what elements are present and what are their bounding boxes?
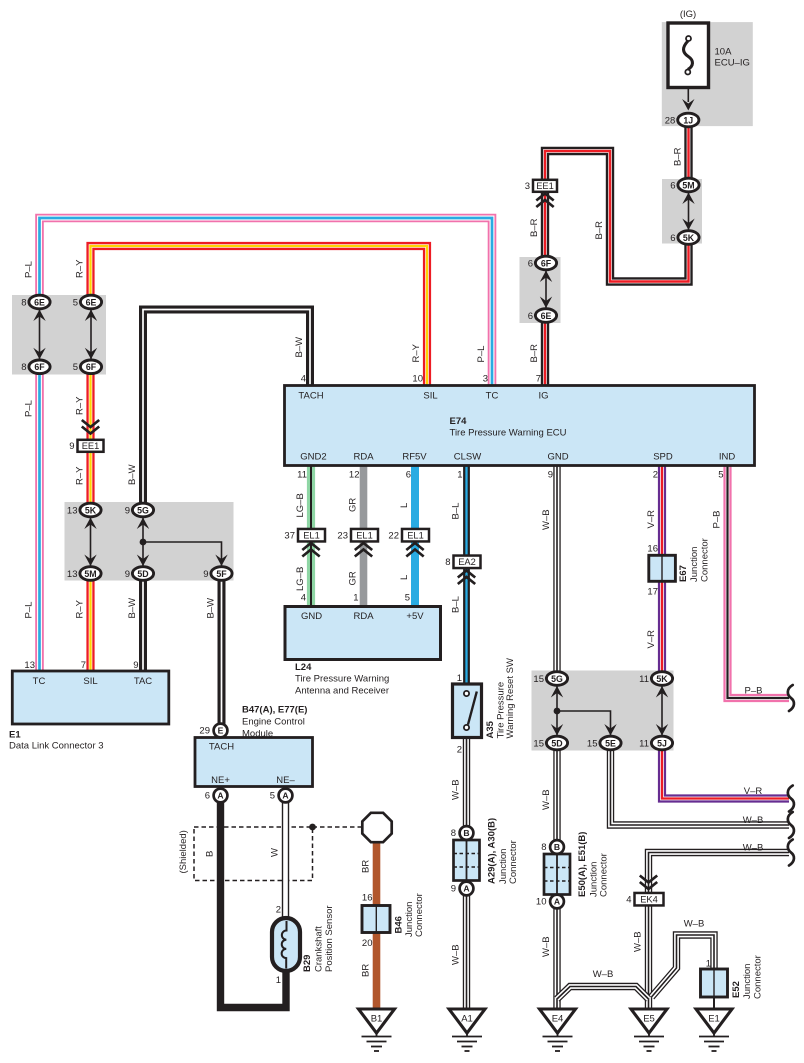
junction connector B46 [362, 906, 390, 933]
svg-text:5E: 5E [605, 738, 616, 748]
svg-text:1: 1 [457, 673, 462, 684]
junction EE1 pin 3 [525, 180, 557, 192]
svg-text:B–W: B–W [294, 337, 305, 358]
connector 5K pin 13 [67, 503, 101, 517]
svg-text:Connector: Connector [753, 955, 764, 999]
svg-text:Module: Module [242, 729, 273, 740]
svg-text:A: A [282, 791, 288, 801]
shield octagon [362, 813, 391, 842]
svg-text:1J: 1J [683, 115, 693, 125]
junction dot shield drain [309, 824, 316, 831]
shield dashed outline around B29 wires [194, 827, 313, 881]
wire LG-B E74 GND2 pin 11 to L24 GND [307, 386, 315, 607]
ECU E74 Tire Pressure Warning ECU [285, 386, 755, 466]
link 5G-5D left [137, 517, 149, 567]
link 6F-6E on B-R [540, 270, 552, 309]
svg-text:Connector: Connector [599, 853, 610, 897]
svg-text:6: 6 [406, 470, 411, 481]
connector 5F pin 9 [203, 567, 232, 581]
svg-text:5G: 5G [137, 505, 149, 515]
svg-text:SIL: SIL [83, 676, 97, 687]
svg-text:EE1: EE1 [82, 441, 100, 451]
svg-text:6: 6 [670, 233, 675, 244]
svg-text:Junction: Junction [689, 547, 700, 582]
svg-text:5F: 5F [216, 569, 227, 579]
wire B-W segment 5F to ECM pin 29 [218, 574, 226, 725]
gray panel connectors 5K-5M 5G-5D 5F left [65, 502, 234, 581]
svg-text:6: 6 [205, 791, 210, 802]
svg-text:9: 9 [125, 569, 130, 580]
connector 6E pin 5 [73, 295, 102, 309]
fuse 10A ECU-IG [668, 23, 709, 88]
svg-text:L24: L24 [295, 662, 312, 673]
chevron out of EA2 [458, 571, 475, 585]
svg-text:1: 1 [276, 975, 281, 986]
svg-text:12: 12 [349, 470, 360, 481]
svg-text:5D: 5D [551, 738, 562, 748]
ground B1 [359, 1009, 395, 1051]
svg-text:IG: IG [538, 391, 548, 402]
svg-text:9: 9 [125, 505, 130, 516]
page link P-B [788, 685, 794, 711]
wire P-L segment 6F to E1 pin 13 [35, 366, 44, 671]
junction connector A29(A) A30(B) [454, 840, 480, 881]
svg-text:A29(A), A30(B): A29(A), A30(B) [487, 818, 498, 884]
svg-text:B–L: B–L [451, 596, 462, 613]
wire W ECM NE- to B29 pin 2 [282, 802, 289, 918]
svg-text:E1: E1 [9, 730, 21, 741]
svg-text:1: 1 [353, 593, 358, 604]
connector 5J pin 11 [639, 736, 672, 750]
svg-text:8: 8 [451, 828, 456, 839]
svg-text:EK4: EK4 [640, 895, 658, 905]
svg-text:6E: 6E [86, 297, 97, 307]
svg-text:13: 13 [24, 660, 35, 671]
svg-text:1: 1 [457, 470, 462, 481]
svg-text:8: 8 [21, 297, 26, 308]
svg-text:W–B: W–B [633, 931, 644, 952]
pin A 5 ECM NE- [270, 789, 293, 803]
svg-text:P–L: P–L [24, 261, 35, 278]
svg-text:B–W: B–W [127, 464, 138, 485]
svg-text:13: 13 [67, 505, 78, 516]
wire W-B from page edge through EK4 to ground E5 [649, 853, 790, 1010]
dashed shield drain line to octagon [313, 826, 364, 828]
junction EE1 pin 9 [69, 440, 103, 452]
svg-text:R–Y: R–Y [75, 599, 86, 618]
svg-text:6F: 6F [34, 362, 45, 372]
svg-text:W–B: W–B [541, 509, 552, 530]
gray panel connectors 6E-6F left pair [12, 295, 106, 375]
svg-text:E74: E74 [450, 416, 468, 427]
page link V-R [788, 786, 794, 812]
svg-text:Engine Control: Engine Control [242, 717, 305, 728]
wire R-Y segment 6F through EE1 to 5K [86, 366, 94, 510]
chevron out of EE1 right [536, 194, 553, 208]
svg-text:2: 2 [276, 905, 281, 916]
svg-text:R–Y: R–Y [75, 259, 86, 278]
junction EL1 pin 37 [284, 529, 325, 542]
wire W-B 5D through E50 junction to ground E4 [553, 743, 560, 1009]
svg-text:RDA: RDA [353, 452, 374, 463]
pin B 8 A29 junction [451, 826, 474, 840]
svg-text:22: 22 [388, 531, 399, 542]
svg-text:GND: GND [547, 452, 568, 463]
connector 6F pin 8 [21, 360, 50, 374]
svg-text:B–R: B–R [529, 218, 540, 237]
pin A 10 E50 junction [536, 895, 564, 909]
svg-text:Connector: Connector [700, 538, 711, 582]
page link W-B lower [788, 840, 794, 866]
link 6E-6F left P-L [33, 309, 45, 360]
svg-text:W: W [270, 848, 281, 857]
svg-text:6: 6 [528, 311, 533, 322]
svg-text:LG–B: LG–B [295, 493, 306, 517]
svg-text:10A: 10A [715, 47, 733, 58]
svg-text:15: 15 [533, 674, 544, 685]
connector 5E pin 15 [587, 736, 621, 750]
wire P-B E74 IND pin 5 down and right to page edge [728, 386, 790, 698]
connector 5K pin 11 [639, 672, 672, 686]
svg-text:4: 4 [626, 895, 631, 906]
wire V-R 5J down and right to page edge [662, 743, 789, 799]
svg-text:E: E [218, 726, 224, 736]
chevron out of EL1 pin 37 [302, 543, 319, 557]
connector 6E pin 6 [528, 309, 557, 323]
wire R-Y segment 5M to E1 SIL pin 7 [86, 574, 94, 672]
svg-text:E1: E1 [708, 1014, 720, 1025]
svg-text:+5V: +5V [406, 611, 424, 622]
svg-text:R–Y: R–Y [75, 466, 86, 485]
svg-text:W–B: W–B [593, 969, 614, 980]
svg-text:7: 7 [536, 374, 541, 385]
svg-text:8: 8 [21, 362, 26, 373]
svg-text:NE+: NE+ [211, 775, 230, 786]
svg-text:6F: 6F [86, 362, 97, 372]
page link W-B upper [788, 812, 794, 838]
svg-text:P–L: P–L [24, 400, 35, 417]
ground E1 [696, 1009, 732, 1051]
svg-text:20: 20 [362, 938, 373, 949]
svg-text:EE1: EE1 [536, 181, 554, 191]
svg-text:Tire Pressure Warning: Tire Pressure Warning [295, 674, 389, 685]
svg-text:(IG): (IG) [680, 9, 696, 20]
switch A35 Tire Pressure Warning Reset SW [453, 684, 482, 738]
svg-text:5M: 5M [84, 569, 96, 579]
junction EA2 pin 8 [445, 556, 480, 569]
svg-text:13: 13 [67, 569, 78, 580]
svg-text:15: 15 [587, 738, 598, 749]
svg-text:EL1: EL1 [356, 531, 373, 541]
svg-text:R–Y: R–Y [75, 396, 86, 415]
svg-text:Junction: Junction [742, 964, 753, 999]
svg-text:28: 28 [665, 115, 676, 126]
wire stub E52 to ground E1 [713, 997, 715, 1010]
svg-text:GND: GND [301, 611, 322, 622]
svg-text:15: 15 [533, 738, 544, 749]
svg-text:BR: BR [361, 860, 372, 873]
junction connector E50(A) E51(B) [544, 854, 570, 895]
svg-text:10: 10 [536, 897, 547, 908]
connector 6F pin 5 [73, 360, 102, 374]
pin A 9 A29 junction [451, 882, 474, 896]
gray panel connectors 6F-6E on B-R [520, 257, 561, 323]
svg-text:5: 5 [718, 470, 723, 481]
connector 5D pin 9 [125, 567, 154, 581]
svg-text:8: 8 [445, 557, 450, 568]
link 5K-5M left [84, 517, 96, 567]
chevron out of EL1 pin 22 [406, 543, 423, 557]
svg-text:5J: 5J [657, 738, 667, 748]
svg-text:L: L [399, 503, 410, 508]
svg-text:37: 37 [284, 531, 295, 542]
svg-text:5D: 5D [137, 569, 148, 579]
svg-text:3: 3 [525, 181, 530, 192]
pin B 8 E50 junction [541, 840, 564, 854]
wire B-L E74 CLSW pin 1 through EA2 to A35 [463, 386, 470, 684]
svg-text:A35: A35 [485, 720, 496, 738]
svg-text:6F: 6F [541, 258, 552, 268]
svg-text:TAC: TAC [134, 676, 152, 687]
svg-text:P–L: P–L [24, 602, 35, 619]
svg-text:V–R: V–R [646, 630, 657, 649]
svg-text:11: 11 [639, 738, 649, 749]
ground A1 [449, 1009, 485, 1051]
svg-text:6: 6 [528, 258, 533, 269]
connector 6F pin 6 [528, 256, 557, 270]
chevron into EK4 [640, 876, 657, 890]
svg-text:CLSW: CLSW [454, 452, 481, 463]
svg-text:E52: E52 [731, 981, 742, 998]
svg-text:GND2: GND2 [300, 452, 326, 463]
connector 5M pin 13 [67, 567, 101, 581]
svg-text:B–W: B–W [206, 598, 217, 619]
svg-text:SIL: SIL [423, 391, 437, 402]
link 5M-5K right [682, 192, 694, 231]
svg-text:LG–B: LG–B [295, 567, 306, 591]
wire BR octagon shield ground through B46 to ground B1 [373, 841, 381, 1009]
wire B-R 6E to E74 IG pin 7 [541, 316, 549, 387]
module L24 antenna and receiver [285, 607, 441, 660]
wire B-W segment 5D to E1 TAC pin 9 [139, 574, 147, 672]
svg-text:Position Sensor: Position Sensor [324, 905, 335, 972]
svg-text:8: 8 [541, 842, 546, 853]
svg-text:9: 9 [133, 660, 138, 671]
svg-text:E4: E4 [552, 1014, 564, 1025]
svg-text:E50(A), E51(B): E50(A), E51(B) [577, 832, 588, 897]
svg-text:9: 9 [203, 569, 208, 580]
sensor B29 Crankshaft Position Sensor [272, 918, 300, 971]
svg-text:23: 23 [337, 531, 348, 542]
branch link to 5E [557, 711, 611, 736]
svg-text:V–R: V–R [744, 786, 763, 797]
svg-text:5: 5 [73, 297, 78, 308]
connector E1 Data Link Connector 3 [12, 671, 169, 724]
svg-text:9: 9 [451, 884, 456, 895]
svg-text:L: L [399, 575, 410, 580]
connector 5M pin 6 [670, 178, 699, 192]
svg-text:GR: GR [348, 571, 359, 585]
svg-text:W–B: W–B [684, 919, 705, 930]
pin A 6 ECM NE+ [205, 789, 228, 803]
connector 5D pin 15 [533, 736, 567, 750]
svg-text:P–L: P–L [476, 346, 487, 363]
connector 5G pin 15 [533, 672, 567, 686]
svg-text:5K: 5K [683, 233, 695, 243]
svg-text:9: 9 [69, 441, 74, 452]
svg-text:EA2: EA2 [458, 557, 476, 567]
svg-text:2: 2 [457, 745, 462, 756]
svg-text:3: 3 [483, 374, 488, 385]
svg-text:EL1: EL1 [303, 531, 320, 541]
svg-text:29: 29 [199, 726, 210, 737]
ground E5 [631, 1009, 667, 1051]
svg-text:(Shielded): (Shielded) [178, 830, 189, 873]
connector 5K pin 6 [670, 231, 699, 245]
branch link to 5F [143, 542, 222, 566]
svg-text:16: 16 [362, 893, 373, 904]
svg-text:B29: B29 [302, 955, 313, 972]
wire B-R 5K around to EE1 [545, 151, 689, 282]
svg-text:A: A [217, 791, 223, 801]
svg-text:GR: GR [348, 498, 359, 512]
svg-text:TC: TC [33, 676, 46, 687]
chevron into EE1 left [82, 420, 99, 434]
svg-text:Connector: Connector [414, 893, 425, 937]
svg-text:B: B [554, 842, 560, 852]
wire P-L from E1 TC up and across to E74 TC pin 3 [40, 218, 493, 386]
junction EL1 pin 22 [388, 529, 429, 542]
svg-text:B–L: B–L [451, 503, 462, 520]
svg-text:1: 1 [706, 959, 711, 970]
svg-text:6E: 6E [34, 297, 45, 307]
svg-text:7: 7 [81, 660, 86, 671]
svg-text:6: 6 [670, 180, 675, 191]
svg-text:9: 9 [548, 470, 553, 481]
svg-text:5G: 5G [551, 674, 563, 684]
wire B-R EE1 to 6F [541, 192, 549, 264]
svg-text:B47(A), E77(E): B47(A), E77(E) [242, 705, 307, 716]
wire stub fuse to arrow [687, 75, 689, 102]
svg-text:V–R: V–R [646, 510, 657, 529]
svg-text:Crankshaft: Crankshaft [314, 926, 325, 972]
svg-text:B46: B46 [394, 916, 405, 933]
junction EL1 pin 23 [337, 529, 378, 542]
svg-text:W–B: W–B [743, 815, 764, 826]
svg-text:Connector: Connector [508, 840, 519, 884]
wire W-B 5E down and right to page edge [611, 743, 790, 825]
module B47 E77 Engine Control Module [195, 738, 313, 787]
wire W-B A35 pin 2 down through A29 junction to ground A1 [463, 738, 470, 1010]
svg-text:IND: IND [719, 452, 736, 463]
svg-text:EL1: EL1 [407, 531, 424, 541]
svg-text:W–B: W–B [451, 779, 462, 800]
svg-text:B: B [205, 851, 216, 857]
svg-text:5: 5 [270, 791, 275, 802]
junction dot 5G branch [140, 539, 147, 546]
svg-text:P–B: P–B [712, 511, 723, 529]
junction EK4 pin 4 [626, 893, 663, 906]
link 5G-5D right [551, 686, 563, 737]
svg-text:RF5V: RF5V [402, 452, 427, 463]
svg-text:Tire Pressure Warning ECU: Tire Pressure Warning ECU [450, 428, 567, 439]
svg-text:11: 11 [639, 674, 649, 685]
chevron out of EL1 pin 23 [355, 543, 372, 557]
junction connector E67 [649, 555, 676, 581]
gray panel connectors 5G-5D 5E 5K-5J right [532, 671, 674, 751]
connector 1J pin 28 [665, 113, 699, 127]
svg-text:BR: BR [361, 964, 372, 977]
svg-text:B–R: B–R [529, 344, 540, 363]
svg-text:4: 4 [301, 593, 306, 604]
svg-text:W–B: W–B [451, 944, 462, 965]
svg-text:Antenna and Receiver: Antenna and Receiver [295, 685, 389, 696]
wire B-R fuse 1J to 5M [684, 127, 692, 185]
connector 5G pin 9 [125, 503, 154, 517]
svg-text:16: 16 [647, 544, 658, 555]
connector 6E pin 8 [21, 295, 50, 309]
svg-text:Warning Reset SW: Warning Reset SW [505, 658, 516, 738]
wire W-B E74 GND pin 9 down to 5G [553, 386, 560, 679]
svg-text:B: B [463, 828, 469, 838]
svg-text:A: A [463, 884, 469, 894]
svg-text:W–B: W–B [541, 936, 552, 957]
svg-text:W–B: W–B [541, 789, 552, 810]
svg-text:2: 2 [653, 470, 658, 481]
svg-text:5: 5 [73, 362, 78, 373]
svg-text:SPD: SPD [653, 452, 673, 463]
junction connector E52 [701, 969, 728, 997]
svg-text:11: 11 [297, 470, 307, 481]
wire W-B link between grounds E4 and E5 [557, 987, 649, 1000]
wire B shielded ECM NE+ around to B29 pin 1 [221, 802, 287, 1008]
svg-text:A1: A1 [461, 1014, 473, 1025]
svg-text:5K: 5K [656, 674, 668, 684]
wire V-R E74 SPD pin 2 through E67 to 5K [658, 386, 666, 679]
svg-text:17: 17 [647, 587, 658, 598]
svg-text:5: 5 [405, 593, 410, 604]
wire B-W from E74 TACH pin 4 across and down to 5G [143, 310, 310, 511]
svg-text:W–B: W–B [743, 843, 764, 854]
svg-text:ECU–IG: ECU–IG [715, 58, 750, 69]
svg-text:NE–: NE– [276, 775, 295, 786]
link 6E-6F left R-Y [85, 309, 97, 360]
ground E4 [540, 1009, 576, 1051]
svg-text:B–W: B–W [127, 598, 138, 619]
svg-text:TACH: TACH [209, 742, 234, 753]
wire L blue E74 RF5V pin 6 to L24 +5V [411, 386, 419, 607]
link 5K-5J right [656, 686, 668, 737]
fuse output arrow into 1J [682, 99, 694, 111]
gray panel connectors 5M-5K right [662, 179, 702, 244]
svg-text:5K: 5K [85, 505, 97, 515]
wire GR gray E74 RDA pin 12 to L24 RDA [360, 386, 368, 607]
svg-text:5M: 5M [682, 180, 694, 190]
svg-text:RDA: RDA [353, 611, 374, 622]
svg-text:TC: TC [486, 391, 499, 402]
svg-text:4: 4 [301, 374, 306, 385]
gray panel behind fuse ECU-IG [662, 22, 753, 126]
svg-text:B–R: B–R [594, 221, 605, 240]
svg-text:A: A [554, 897, 560, 907]
svg-text:R–Y: R–Y [411, 343, 422, 362]
junction dot 5G right branch [554, 708, 561, 715]
svg-text:B1: B1 [371, 1014, 383, 1025]
svg-text:Data Link Connector 3: Data Link Connector 3 [9, 741, 104, 752]
svg-text:6E: 6E [541, 311, 552, 321]
svg-text:TACH: TACH [298, 391, 323, 402]
svg-text:E67: E67 [678, 565, 689, 582]
